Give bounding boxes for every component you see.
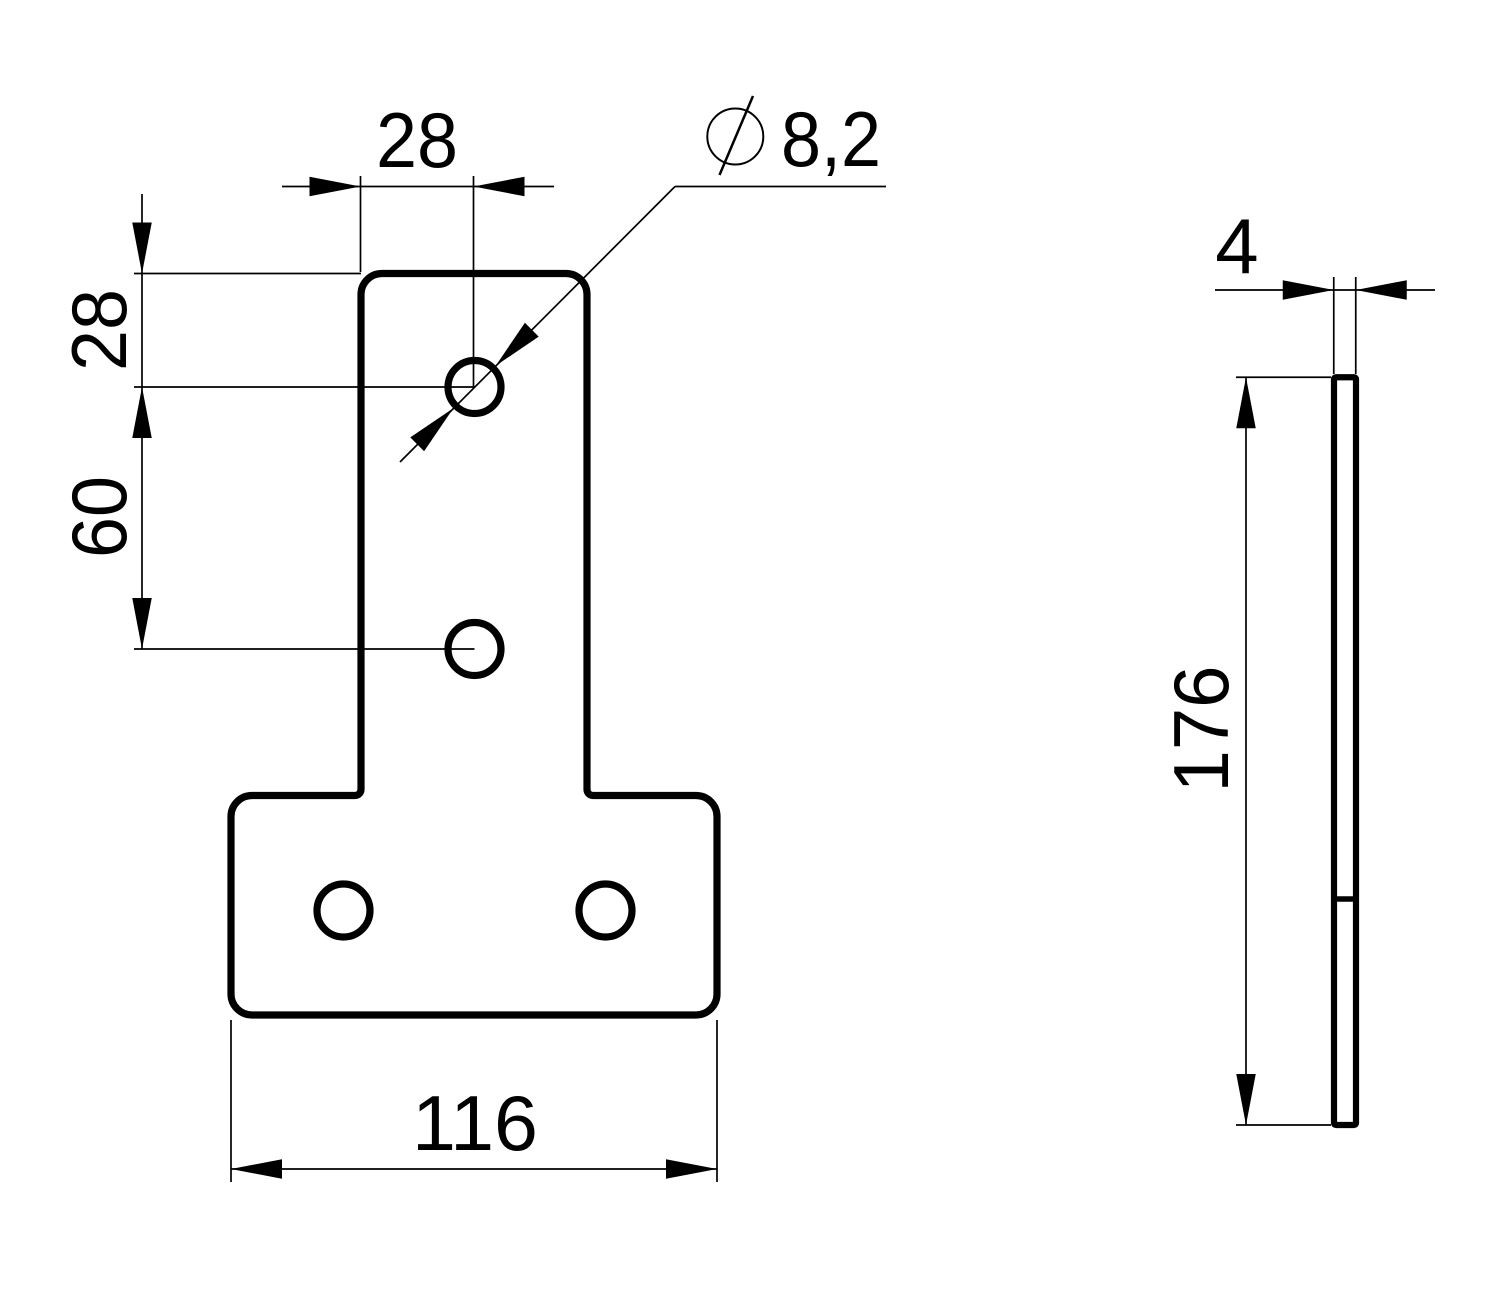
- svg-text:60: 60: [55, 476, 143, 558]
- svg-text:116: 116: [412, 1079, 538, 1167]
- svg-text:28: 28: [55, 289, 143, 371]
- svg-text:4: 4: [1215, 202, 1258, 290]
- svg-text:28: 28: [376, 96, 458, 184]
- svg-text:176: 176: [1157, 666, 1245, 793]
- svg-text:8,2: 8,2: [781, 95, 881, 183]
